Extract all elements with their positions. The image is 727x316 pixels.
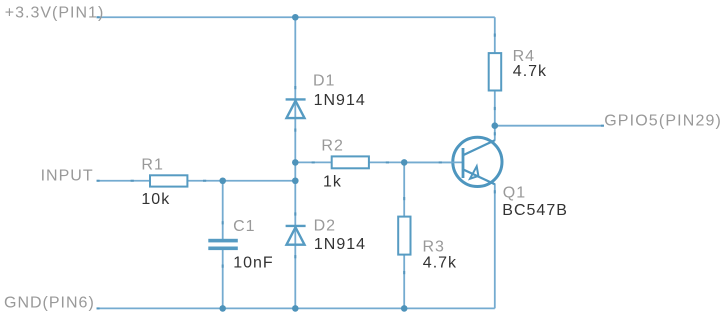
junction node C1 ground [219,305,226,312]
svg-text:4.7k: 4.7k [423,254,457,271]
junction node base/R3 [401,159,408,166]
pin end tick R2 right [386,161,389,163]
wire collector vertical (rail corner down through R4 to transistor) [494,17,496,141]
svg-text:+3.3V(PIN1): +3.3V(PIN1) [5,4,104,21]
svg-text:Q1: Q1 [503,185,526,202]
pin end tick Q1 collector [494,132,496,135]
svg-text:1N914: 1N914 [314,236,366,253]
port tick INPUT [97,180,100,182]
wire input horizontal [97,180,296,182]
resistor R4 (box) [489,53,502,90]
junction node D2 ground [292,305,299,312]
wire C1 branch lower [222,250,224,308]
pin end tick R2 left [312,161,315,163]
wire GPIO5 horizontal [495,125,604,127]
pin end tick R4 bottom [494,107,496,110]
svg-text:GPIO5(PIN29): GPIO5(PIN29) [604,113,722,130]
wire C1 branch upper [222,181,224,239]
svg-text:10nF: 10nF [233,255,273,272]
svg-text:D1: D1 [313,72,335,89]
port tick +3.3V [97,16,100,18]
junction node collector/GPIO [492,122,499,129]
port tick GPIO5 [601,125,604,127]
wire emitter vertical [494,184,496,309]
resistor R2 (box) [332,156,369,168]
port tick GND [97,307,100,309]
junction node R3 ground [401,305,408,312]
pin end tick C1 bottom [222,265,224,268]
capacitor C1 (plates) [208,239,238,250]
junction node C1 tap [219,177,226,184]
svg-text:10k: 10k [141,191,170,208]
svg-text:D2: D2 [314,217,336,234]
wire GND bottom rail [97,307,495,309]
transistor Q1 (NPN BC547B) [404,137,502,186]
pin end tick Q1 base [439,161,442,163]
pin end tick D1 top [294,86,296,89]
wire 3.3V top rail [97,16,495,18]
pin end tick D2 top [294,212,296,215]
pin end tick Q1 emitter [494,190,496,193]
diode D1 [286,99,306,118]
svg-text:BC547B: BC547B [502,202,568,219]
svg-text:1N914: 1N914 [314,92,366,109]
wire middle vertical (D1/D2 branch) [294,17,296,308]
resistor R1 (box) [150,175,187,186]
pin end tick R1 right [203,180,206,182]
diode D2 [286,226,306,245]
pin end tick R1 left [131,180,134,182]
pin end tick R3 bottom [403,271,405,274]
svg-text:R2: R2 [321,138,343,155]
svg-text:R1: R1 [141,156,163,173]
pin end tick R4 top [494,34,496,37]
junction node input/diode [292,177,299,184]
svg-text:R3: R3 [423,239,445,256]
junction node R2 tap [292,159,299,166]
svg-text:GND(PIN6): GND(PIN6) [4,294,95,311]
pin end tick C1 top [222,221,224,224]
pin end tick D1 bottom [294,129,296,132]
svg-text:INPUT: INPUT [41,167,94,184]
resistor R3 (box) [398,217,410,255]
wire R2 base net [295,161,463,163]
svg-text:4.7k: 4.7k [513,63,547,80]
pin end tick R3 top [403,197,405,200]
svg-text:C1: C1 [233,218,255,235]
pin end tick D2 bottom [294,255,296,258]
junction node on 3.3V rail [292,14,299,21]
svg-text:1k: 1k [323,173,342,190]
wire R3 branch [403,162,405,308]
